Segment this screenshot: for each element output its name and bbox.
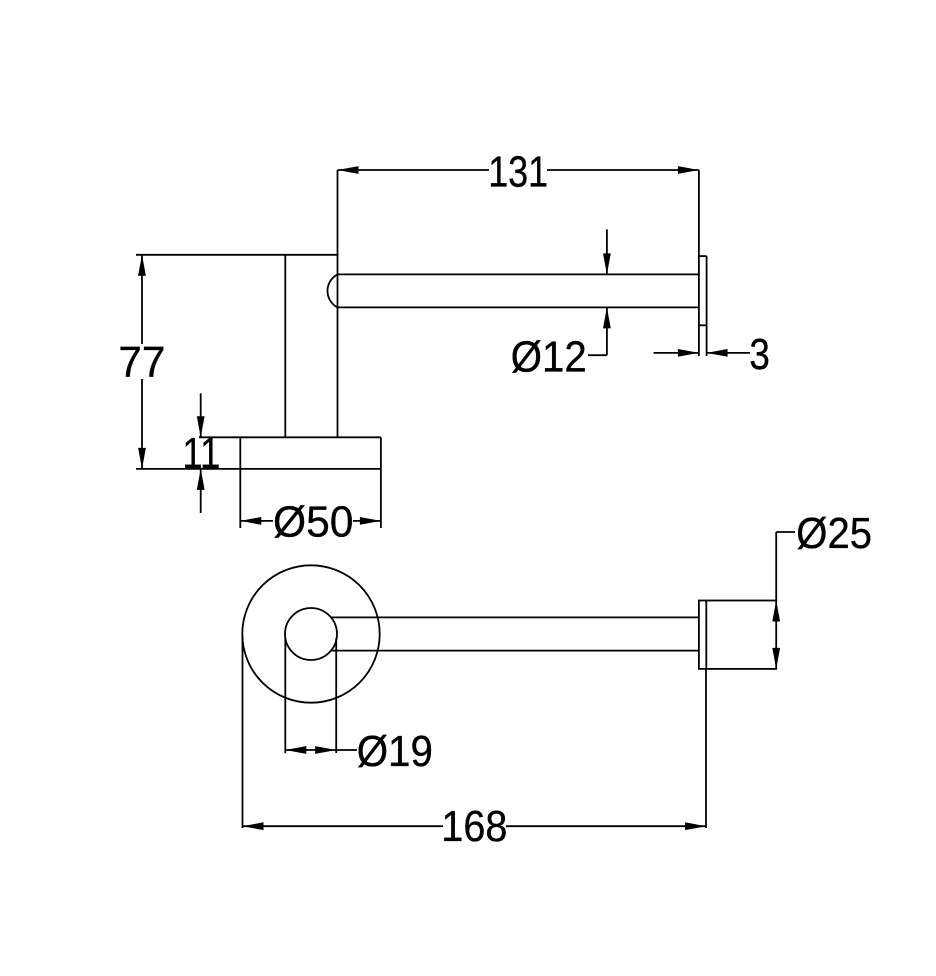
dim 77 up arrowhead (138, 255, 146, 276)
arm bottom line (side view) (338, 306, 699, 308)
wall plate inner line (top view) (705, 601, 707, 669)
dim D12 upper arrow line (606, 229, 608, 274)
dim 11 up arrowhead (197, 469, 205, 490)
flange right edge / D50 right ext (380, 437, 382, 528)
post top / 77 top extension (136, 254, 338, 256)
post left edge (side view) (284, 255, 286, 437)
svg-text:77: 77 (118, 338, 165, 387)
dim D19 dim line (285, 749, 357, 751)
dim D25 horizontal leader (776, 531, 795, 533)
dim 3 right line (707, 352, 750, 354)
wall plate top tick (699, 255, 707, 257)
bar bottom line (top view) (331, 650, 699, 652)
dim D19 left extension line (284, 638, 286, 753)
flange top line / 11 extension (199, 436, 381, 438)
dim D25 down arrowhead (772, 648, 780, 669)
flange bottom line / 77 bottom extension (136, 468, 381, 470)
arm left end arc (327, 274, 337, 307)
dim 168 right extension line (705, 669, 707, 828)
dim D50 line left segment (240, 520, 273, 522)
dim 168 right arrowhead (685, 822, 706, 830)
flange left edge / D50 left ext (239, 437, 241, 528)
dim 131 line right segment (547, 169, 699, 171)
dim 3 left line (654, 352, 699, 354)
svg-text:168: 168 (441, 802, 507, 851)
dim 11 down arrowhead (197, 416, 205, 437)
svg-text:131: 131 (488, 148, 548, 197)
dim 131 line left segment (338, 169, 490, 171)
post right edge / 131 left extension (337, 170, 339, 437)
dim D12 lower arrow line (606, 307, 608, 355)
dim D50 line right segment (353, 520, 381, 522)
dim 168 line left segment (243, 825, 444, 827)
dim 168 line right segment (506, 825, 706, 827)
dim D19 right arrowhead (315, 746, 336, 754)
dim 168 left arrowhead (243, 822, 264, 830)
dim 131 right arrowhead (678, 166, 699, 174)
svg-text:Ø19: Ø19 (357, 727, 433, 776)
svg-text:3: 3 (749, 330, 770, 379)
dim D25 vertical leader above rect (775, 532, 777, 601)
svg-text:11: 11 (182, 429, 220, 478)
dim D50 right arrowhead (360, 517, 381, 525)
outer circle (top view flange) (242, 565, 379, 702)
dim 3 right-pointing arrowhead (678, 349, 699, 357)
dim D50 left arrowhead (240, 517, 261, 525)
dim 131 left arrowhead (338, 166, 359, 174)
dim 77 down arrowhead (138, 448, 146, 469)
svg-text:Ø12: Ø12 (511, 333, 587, 382)
dim D19 left arrowhead (285, 746, 306, 754)
inner circle (top view post) (285, 608, 337, 660)
dim D12 down arrowhead (603, 253, 611, 274)
wall plate bottom tick (699, 324, 707, 326)
dim 77 line lower segment (141, 379, 143, 469)
dim 11 upper arrow line (200, 393, 202, 437)
dim 11 lower arrow line (200, 469, 202, 513)
svg-text:Ø50: Ø50 (273, 498, 354, 547)
dim 3 left-pointing arrowhead (707, 349, 728, 357)
wall plate right edge / 3 right ext (706, 256, 708, 356)
dim 168 left extension line (242, 636, 244, 828)
dim D25 up arrowhead (772, 601, 780, 622)
wall plate rect (top view) (699, 601, 776, 669)
arm top line (side view) (338, 273, 699, 275)
dim D12 up arrowhead (603, 307, 611, 328)
wall plate left edge / 131 right ext / 3 left ext (698, 170, 700, 356)
svg-text:Ø25: Ø25 (796, 509, 872, 558)
bar top line (top view) (331, 616, 699, 618)
dim D19 right extension line (335, 638, 337, 753)
dim D12 horizontal leader (588, 354, 607, 356)
dim 77 line upper segment (141, 255, 143, 344)
